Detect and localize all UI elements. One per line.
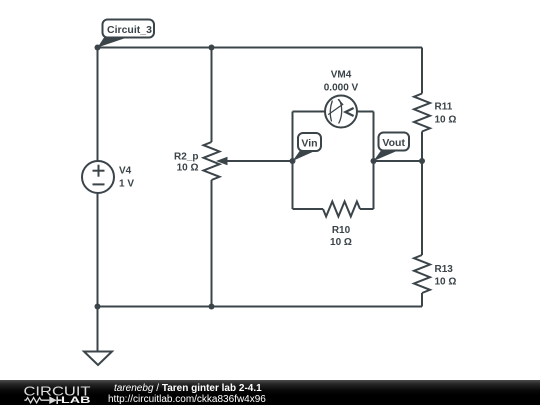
wire top rail <box>98 47 423 49</box>
logo resistor symbol <box>24 398 49 403</box>
wire ground stub <box>97 307 99 352</box>
label V4 "1 V" <box>119 166 134 190</box>
wire R2_p wiper arrow to node Vin <box>216 157 293 166</box>
resistor R10 <box>293 202 374 217</box>
svg-text:R10: R10 <box>332 225 351 236</box>
node label Circuit_3 <box>98 20 155 48</box>
voltage source V4 <box>82 161 114 193</box>
svg-text:10 Ω: 10 Ω <box>435 115 457 126</box>
label R11 "10 Ω" <box>435 102 457 126</box>
ground <box>84 352 112 366</box>
svg-text:10 Ω: 10 Ω <box>435 277 457 288</box>
svg-text:0.000 V: 0.000 V <box>324 83 359 94</box>
CircuitLab logo <box>0 380 100 405</box>
wire Vin vertical <box>292 112 294 210</box>
wire Vout to right rail <box>374 160 423 162</box>
junction R2_p top <box>209 45 215 51</box>
junction R2_p bottom <box>209 304 215 310</box>
svg-text:R2_p: R2_p <box>174 152 198 163</box>
footer credit text <box>108 384 266 405</box>
wire left rail lower <box>97 193 99 307</box>
svg-text:Circuit_3: Circuit_3 <box>107 24 152 36</box>
svg-text:Vin: Vin <box>301 138 317 150</box>
svg-text:Vout: Vout <box>382 137 405 149</box>
svg-text:VM4: VM4 <box>331 70 352 81</box>
svg-text:1 V: 1 V <box>119 179 134 190</box>
label VM4 "0.000 V" <box>324 70 359 94</box>
wire VM4 left lead <box>293 111 326 113</box>
voltmeter VM4 <box>325 96 357 128</box>
svg-text:V4: V4 <box>119 166 132 177</box>
svg-text:R13: R13 <box>435 264 454 275</box>
potentiometer R2_p <box>204 48 220 307</box>
resistor R11 <box>414 48 430 162</box>
label R13 "10 Ω" <box>435 264 457 288</box>
svg-text:LAB: LAB <box>61 395 91 405</box>
junction Vin <box>290 158 296 164</box>
wire VM4 right lead <box>357 111 374 113</box>
svg-text:10 Ω: 10 Ω <box>330 237 352 248</box>
node label Vout <box>374 133 410 162</box>
node label Vin <box>293 133 322 161</box>
junction bottom-left <box>95 304 101 310</box>
label R2_p "10 Ω" <box>174 152 198 174</box>
wire left rail upper <box>97 48 99 162</box>
junction right rail <box>419 158 425 164</box>
wire Vout vertical <box>373 112 375 210</box>
svg-text:R11: R11 <box>435 102 453 113</box>
junction Vout <box>371 158 377 164</box>
svg-text:10 Ω: 10 Ω <box>177 163 199 174</box>
junction top-left node <box>95 45 101 51</box>
logo diode symbol <box>49 396 61 404</box>
label R10 "10 Ω" <box>330 225 352 248</box>
wire bottom rail <box>98 306 423 308</box>
resistor R13 <box>414 161 430 307</box>
footer bar <box>0 380 540 405</box>
